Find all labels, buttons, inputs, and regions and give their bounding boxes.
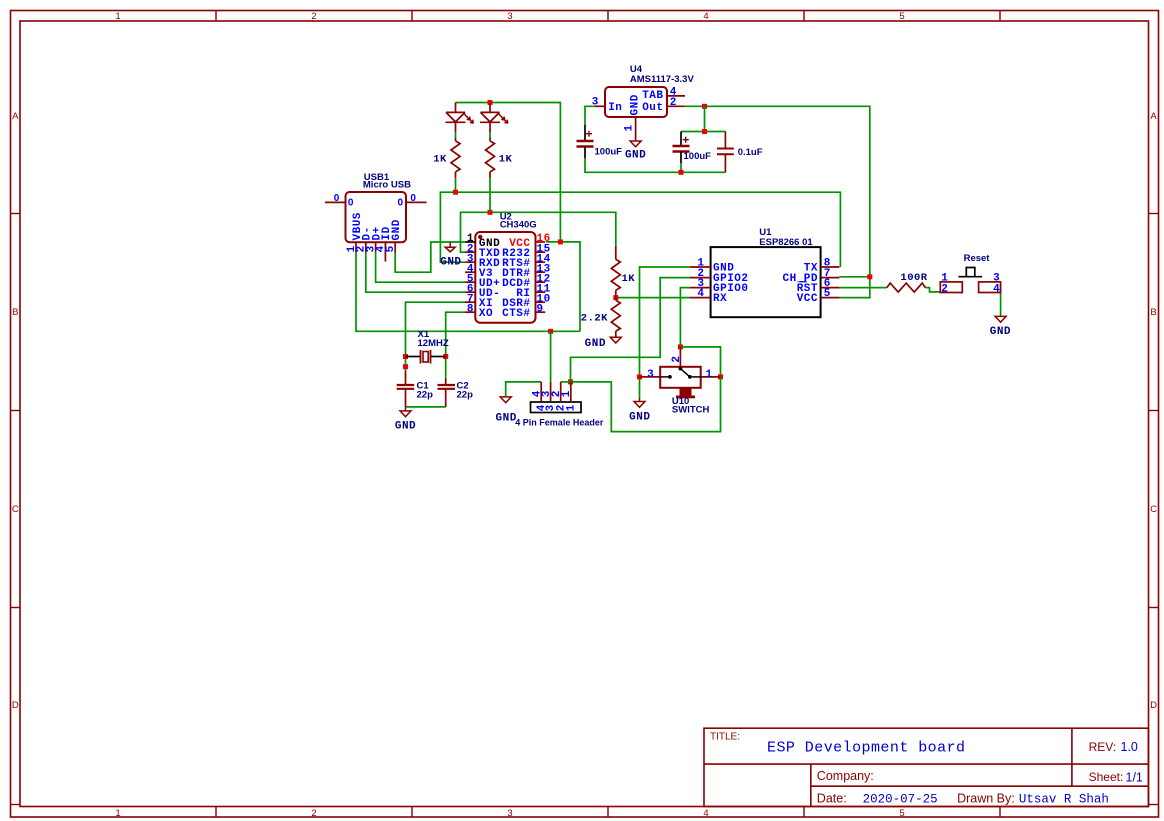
svg-text:A: A: [12, 111, 19, 122]
svg-text:1: 1: [561, 390, 573, 397]
wire ESP GND down: [640, 267, 691, 398]
U4 labels: [592, 64, 695, 132]
svg-text:C: C: [1150, 504, 1157, 515]
junction caps bottom rail: [679, 170, 684, 175]
svg-text:1: 1: [115, 11, 120, 22]
junction 1K 2.2K RX: [613, 295, 618, 300]
svg-text:100uF: 100uF: [595, 146, 623, 157]
label 100R: [900, 272, 927, 284]
svg-text:CTS#: CTS#: [502, 308, 530, 320]
svg-text:C: C: [12, 504, 19, 515]
resistor 1K (TXD to RX): [611, 246, 620, 298]
resistor 2.2K: [611, 298, 620, 338]
svg-text:Micro USB: Micro USB: [363, 180, 411, 191]
wire header to switch pin1 loop: [571, 377, 721, 432]
svg-text:Company:: Company:: [817, 769, 874, 783]
junction cap top rail: [702, 129, 707, 134]
ground (U4 pin1): [625, 141, 646, 162]
wire LED 5V top rail: [456, 103, 561, 242]
ground (USB/CH340 GND wire): [440, 242, 461, 269]
wire C1-C2 ground rail: [406, 406, 446, 408]
svg-text:2: 2: [670, 97, 677, 109]
wire reset switch to GND: [1000, 284, 1002, 316]
wire GPIO0 to switch pin2: [680, 288, 690, 347]
label Micro USB: [363, 180, 411, 191]
svg-text:3: 3: [647, 369, 654, 381]
capacitor 100uF (input): [577, 125, 594, 158]
junction switch pin2 top: [678, 344, 683, 349]
svg-text:8: 8: [467, 303, 474, 315]
svg-text:5: 5: [385, 245, 397, 252]
svg-text:GND: GND: [990, 326, 1011, 338]
svg-text:D: D: [12, 700, 19, 711]
resistor 1K (LED2): [486, 141, 495, 178]
svg-text:3: 3: [507, 808, 512, 819]
regulator U4 AMS1117-3.3V body and pins: [595, 87, 685, 141]
svg-text:Out: Out: [642, 102, 663, 114]
svg-text:GND: GND: [395, 421, 416, 433]
svg-text:A: A: [1150, 111, 1157, 122]
connector 4 Pin Female Header body: [531, 382, 582, 413]
wire switch pin2 to pin1 link: [680, 347, 720, 377]
svg-text:TITLE:: TITLE:: [710, 732, 740, 743]
wire cap2 bottom link: [680, 163, 682, 172]
wire 1K-2.2K junction to ESP RX: [616, 297, 690, 299]
svg-text:100R: 100R: [900, 272, 927, 284]
capacitor 0.1uF: [717, 132, 734, 173]
capacitor C1 22p: [397, 371, 415, 407]
ground (2.2K): [585, 337, 622, 350]
svg-text:1: 1: [565, 404, 577, 411]
label 12MHZ: [418, 338, 449, 349]
label USB1: [364, 172, 390, 183]
connector USB1 Micro USB body: [325, 192, 427, 262]
wire CH340 VCC rail: [546, 242, 580, 331]
svg-text:ESP Development board: ESP Development board: [767, 740, 965, 757]
U1 labels: [697, 227, 830, 305]
USB1 pin names and numbers: [346, 212, 403, 252]
svg-text:RX: RX: [713, 293, 727, 305]
IC U2 CH340G body and pins: [465, 232, 545, 323]
svg-text:B: B: [1150, 307, 1156, 318]
ground (ESP GND / switch pin3): [629, 398, 650, 423]
svg-text:2: 2: [311, 808, 316, 819]
svg-text:2: 2: [671, 356, 683, 363]
svg-text:0: 0: [334, 193, 340, 204]
ground (C1 C2): [395, 407, 416, 433]
crystal X1 12MHZ: [406, 350, 446, 364]
resistor 1K (LED1): [451, 141, 460, 178]
svg-text:0.1uF: 0.1uF: [738, 147, 763, 158]
wire U4 Out 3.3V rail: [685, 106, 870, 297]
junction header pin3 on VBUS rail: [548, 329, 553, 334]
wire cap top link: [704, 106, 706, 131]
svg-text:4: 4: [703, 11, 708, 22]
svg-text:GND: GND: [391, 219, 403, 240]
junction switch pin1: [718, 374, 723, 379]
svg-text:2.2K: 2.2K: [581, 313, 608, 325]
LED D2: [480, 103, 508, 141]
wire header pin4 to GND: [506, 382, 542, 397]
pushbutton Reset: [940, 268, 1000, 293]
svg-text:0: 0: [398, 198, 404, 209]
Reset labels: [941, 253, 1000, 296]
wire USB D+ to UD+: [376, 252, 466, 282]
label X1: [418, 329, 430, 340]
header labels: [515, 390, 604, 427]
junction LED1 bottom: [453, 190, 458, 195]
svg-text:Drawn By:: Drawn By:: [957, 791, 1015, 805]
svg-text:1: 1: [623, 125, 635, 132]
svg-text:4 Pin Female Header: 4 Pin Female Header: [515, 417, 604, 427]
USB pin 0 right: [398, 193, 417, 209]
label 1K (TXD): [622, 273, 636, 285]
wire header pin2 link: [561, 381, 571, 383]
wire LED1 resistor bottom: [455, 178, 457, 192]
wire 100R to reset switch: [926, 288, 941, 292]
junction 5V rail to CH340 VCC: [558, 239, 563, 244]
svg-text:GND: GND: [585, 338, 606, 350]
svg-text:GND: GND: [629, 94, 641, 115]
svg-text:Date:: Date:: [817, 791, 847, 805]
svg-text:GND: GND: [496, 413, 517, 425]
svg-text:3: 3: [993, 272, 1000, 284]
wire U4 In to C100uF: [585, 106, 595, 125]
label 22p (C1): [417, 390, 434, 401]
svg-text:B: B: [12, 307, 18, 318]
svg-text:2: 2: [311, 11, 316, 22]
svg-text:SWITCH: SWITCH: [672, 404, 710, 415]
wire USB D- to UD-: [366, 252, 466, 292]
svg-text:1.0: 1.0: [1121, 740, 1138, 754]
label 1K (LED2): [499, 154, 513, 166]
junction X1 left: [403, 354, 408, 359]
IC U1 ESP8266 01 body and pins: [690, 247, 839, 317]
svg-text:AMS1117-3.3V: AMS1117-3.3V: [630, 74, 695, 85]
wire VBUS long rail: [356, 252, 580, 331]
ground (Reset): [990, 316, 1011, 337]
svg-text:1K: 1K: [433, 154, 447, 166]
svg-text:0: 0: [410, 193, 416, 204]
svg-text:4: 4: [703, 808, 708, 819]
switch U10 body: [640, 347, 721, 398]
label C2: [457, 381, 469, 392]
junction X1 right: [443, 354, 448, 359]
svg-text:2020-07-25: 2020-07-25: [863, 792, 938, 806]
wire LED1 bottom rail to RXD and ESP TX: [440, 192, 840, 267]
svg-text:4: 4: [993, 284, 1000, 296]
svg-text:5: 5: [824, 288, 831, 300]
capacitor 100uF (output): [673, 132, 690, 164]
LED D1: [446, 103, 474, 141]
svg-text:1: 1: [115, 808, 120, 819]
svg-text:2: 2: [941, 284, 948, 296]
junction LED2 top: [488, 100, 493, 105]
svg-text:4: 4: [697, 288, 704, 300]
junction U4 out to caps: [702, 104, 707, 109]
svg-text:1: 1: [941, 272, 948, 284]
label 100uF (input): [595, 146, 623, 157]
USB pin 0 left: [334, 193, 354, 209]
svg-text:TAB: TAB: [642, 90, 663, 102]
svg-text:Sheet:: Sheet:: [1089, 770, 1124, 784]
junction LED2 bottom on TXD net: [488, 210, 493, 215]
svg-text:GND: GND: [440, 257, 461, 269]
label 100uF (output): [684, 151, 712, 162]
svg-text:12MHZ: 12MHZ: [418, 338, 449, 349]
wire LED2 resistor bottom: [489, 178, 491, 212]
svg-text:3: 3: [507, 11, 512, 22]
svg-text:100uF: 100uF: [684, 151, 712, 162]
label 2.2K: [581, 313, 608, 325]
label 22p (C2): [457, 390, 474, 401]
svg-text:GND: GND: [625, 150, 646, 162]
wire TXD to 1K: [461, 212, 616, 252]
svg-text:5: 5: [899, 11, 904, 22]
label C1: [417, 381, 430, 392]
svg-text:1K: 1K: [499, 154, 513, 166]
U2 labels: [467, 212, 551, 321]
svg-text:REV:: REV:: [1089, 740, 1117, 754]
svg-text:GND: GND: [629, 411, 650, 423]
svg-text:9: 9: [537, 303, 544, 315]
junction below X1 left: [403, 364, 408, 369]
svg-text:3: 3: [592, 96, 599, 108]
title block: [704, 728, 1148, 806]
wire ESP CH_PD tie: [839, 276, 869, 278]
svg-text:Reset: Reset: [964, 253, 991, 264]
wire GPIO2 to header: [571, 278, 691, 382]
svg-text:22p: 22p: [457, 390, 474, 401]
junction header pin1: [568, 379, 573, 384]
svg-text:In: In: [608, 102, 622, 114]
svg-text:22p: 22p: [417, 390, 434, 401]
junction switch pin3 GND: [637, 374, 642, 379]
wire header pin3 up: [550, 331, 552, 382]
U10 labels: [647, 356, 712, 415]
label 1K (LED1): [433, 154, 447, 166]
svg-text:1/1: 1/1: [1126, 771, 1143, 785]
svg-text:D: D: [1150, 700, 1157, 711]
capacitor C2 22p: [438, 378, 456, 407]
svg-text:1K: 1K: [622, 273, 636, 285]
resistor 100R: [887, 283, 926, 292]
wire cap2/C3 top rail: [681, 131, 725, 133]
svg-text:Utsav R Shah: Utsav R Shah: [1019, 792, 1109, 806]
wire ESP RST to 100R: [839, 287, 887, 289]
svg-text:0: 0: [348, 198, 354, 209]
svg-text:1: 1: [706, 369, 713, 381]
svg-text:ESP8266 01: ESP8266 01: [759, 237, 813, 248]
wire XI to X1/C1: [406, 302, 466, 371]
label 0.1uF: [738, 147, 763, 158]
wire XO to X1/C2: [446, 312, 466, 378]
wire caps bottom rail: [585, 158, 725, 172]
wire USB GND to CH340 GND: [395, 242, 465, 272]
svg-text:5: 5: [899, 808, 904, 819]
ground (header pin4): [496, 397, 517, 425]
svg-text:VCC: VCC: [797, 293, 818, 305]
junction CH_PD to 3.3V: [867, 274, 872, 279]
svg-text:XO: XO: [479, 308, 493, 320]
svg-text:CH340G: CH340G: [500, 219, 537, 230]
